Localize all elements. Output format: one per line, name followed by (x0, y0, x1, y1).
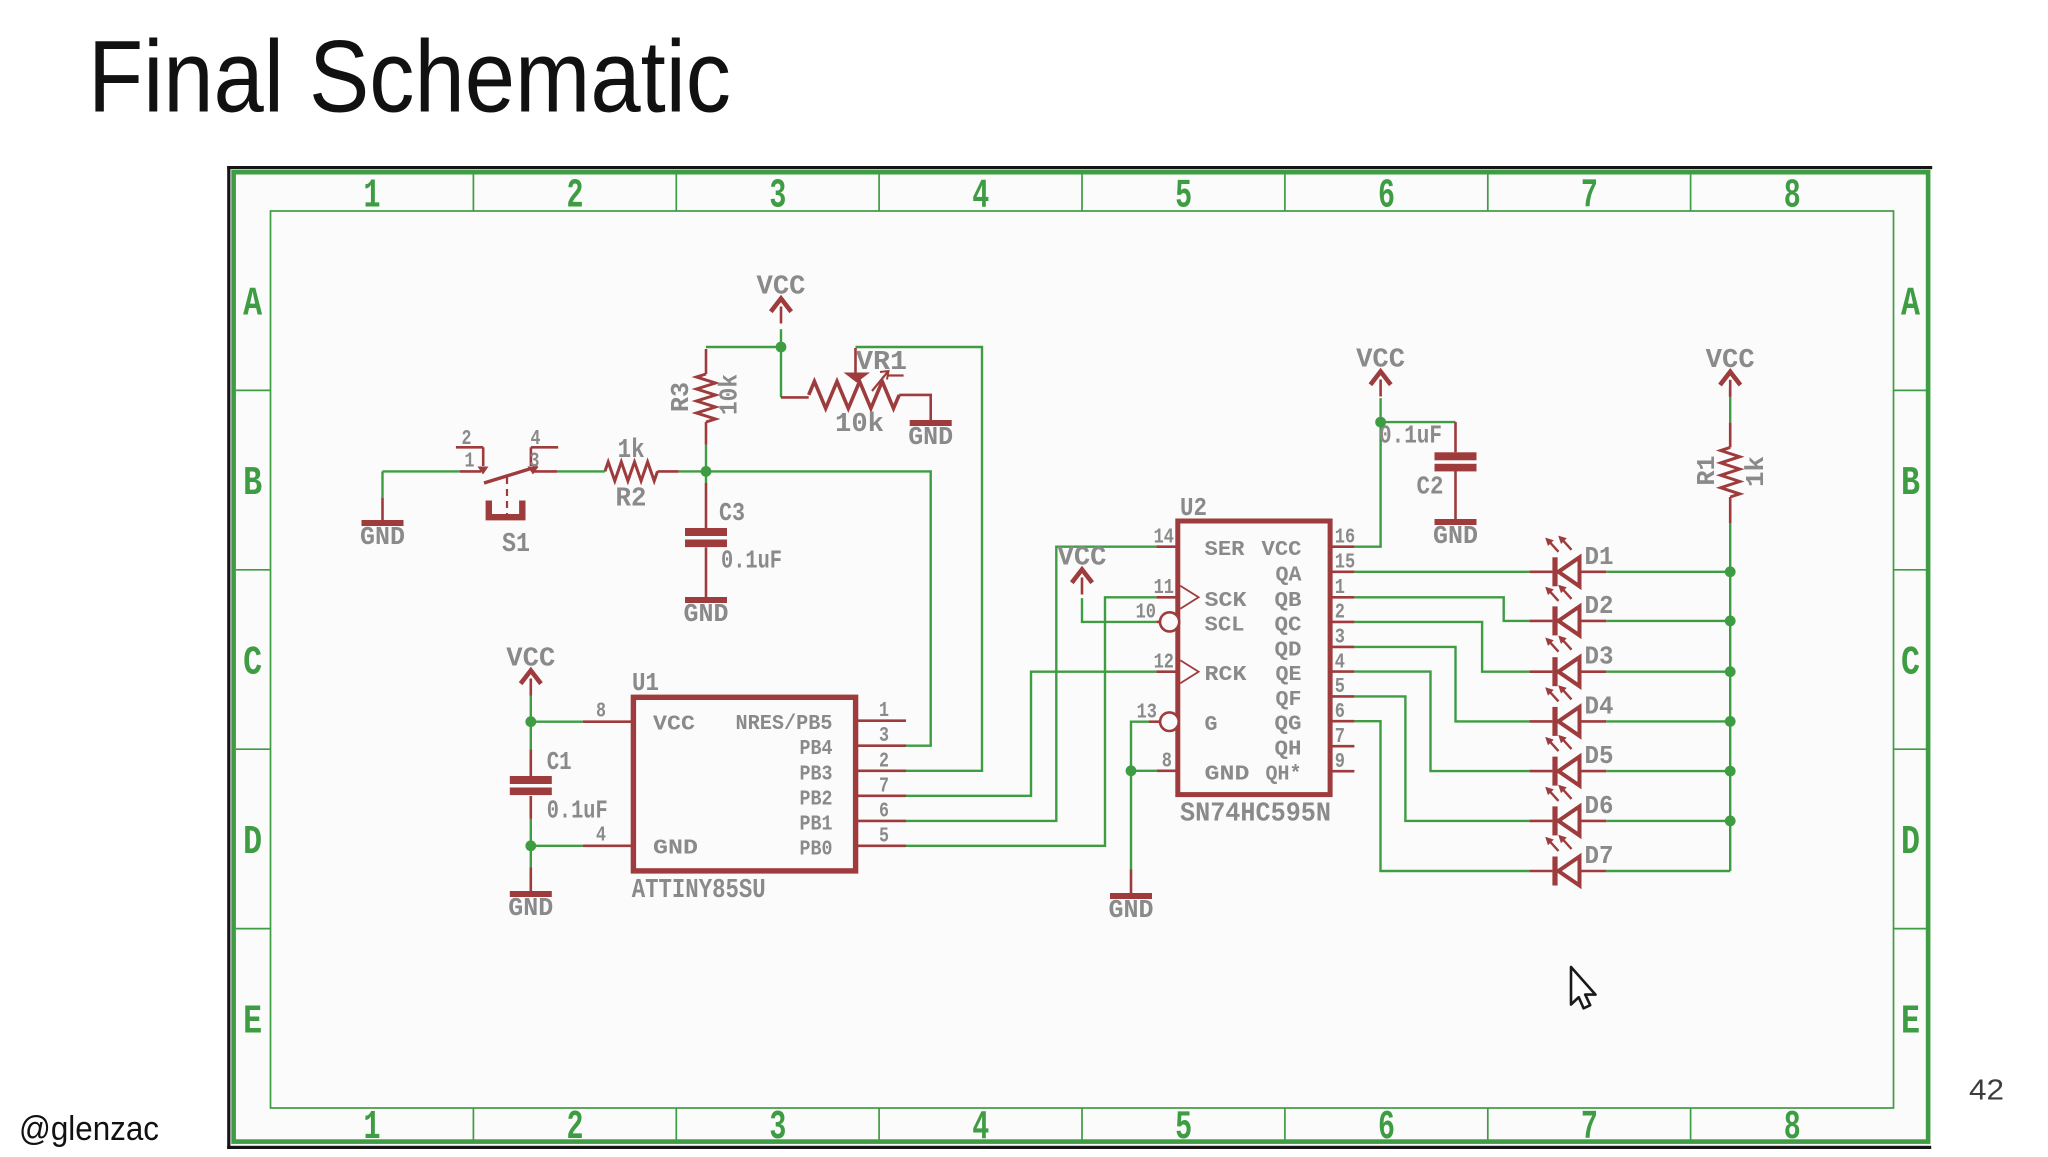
svg-text:0.1uF: 0.1uF (547, 796, 608, 826)
svg-text:GND: GND (1433, 521, 1478, 551)
svg-text:D3: D3 (1585, 642, 1614, 672)
svg-text:C2: C2 (1417, 472, 1444, 502)
svg-text:10: 10 (1136, 602, 1156, 625)
svg-text:1: 1 (465, 451, 475, 474)
svg-text:16: 16 (1335, 527, 1355, 550)
svg-text:VCC: VCC (1058, 544, 1107, 574)
svg-text:D6: D6 (1585, 791, 1614, 821)
svg-text:4: 4 (972, 1105, 989, 1151)
svg-text:15: 15 (1335, 552, 1355, 575)
svg-text:7: 7 (1581, 1105, 1598, 1151)
svg-text:VR1: VR1 (856, 348, 907, 378)
svg-text:5: 5 (1175, 174, 1192, 220)
svg-text:2: 2 (462, 428, 472, 451)
svg-text:1k: 1k (1741, 456, 1771, 487)
svg-text:D: D (1901, 820, 1920, 866)
svg-text:3: 3 (879, 725, 889, 748)
svg-text:6: 6 (1335, 701, 1345, 724)
svg-text:E: E (243, 999, 262, 1045)
svg-text:B: B (243, 461, 262, 507)
svg-text:VCC: VCC (506, 645, 555, 675)
svg-text:RCK: RCK (1205, 664, 1247, 687)
svg-text:D: D (243, 820, 262, 866)
svg-text:D1: D1 (1585, 542, 1614, 572)
svg-text:PB0: PB0 (800, 838, 833, 861)
svg-text:7: 7 (1581, 174, 1598, 220)
svg-text:SCL: SCL (1205, 614, 1245, 637)
svg-text:R1: R1 (1692, 456, 1722, 486)
svg-text:1: 1 (879, 700, 889, 723)
svg-text:2: 2 (567, 1105, 584, 1151)
svg-text:SER: SER (1205, 539, 1245, 562)
svg-text:5: 5 (879, 825, 889, 848)
svg-text:VCC: VCC (757, 273, 806, 303)
svg-text:6: 6 (1378, 174, 1395, 220)
svg-text:QC: QC (1275, 614, 1302, 637)
svg-text:S1: S1 (502, 530, 530, 560)
svg-text:2: 2 (1335, 602, 1345, 625)
svg-text:7: 7 (1335, 726, 1345, 749)
svg-text:5: 5 (1175, 1105, 1192, 1151)
svg-text:ATTINY85SU: ATTINY85SU (632, 876, 766, 906)
svg-text:1: 1 (1335, 577, 1345, 600)
svg-text:U2: U2 (1180, 493, 1207, 523)
svg-text:2: 2 (879, 750, 889, 773)
svg-text:D2: D2 (1585, 591, 1614, 621)
svg-text:13: 13 (1137, 702, 1157, 725)
svg-text:A: A (243, 282, 262, 328)
svg-text:10k: 10k (835, 410, 884, 440)
svg-text:D7: D7 (1585, 841, 1614, 871)
svg-text:C: C (243, 641, 262, 687)
svg-text:QB: QB (1275, 590, 1302, 613)
svg-text:QH: QH (1275, 739, 1302, 762)
svg-text:VCC: VCC (1706, 346, 1755, 376)
svg-text:11: 11 (1154, 577, 1174, 600)
svg-text:QE: QE (1276, 664, 1302, 687)
svg-text:7: 7 (879, 775, 889, 798)
svg-text:@glenzac: @glenzac (19, 1110, 159, 1148)
svg-text:SN74HC595N: SN74HC595N (1180, 800, 1331, 830)
svg-text:12: 12 (1154, 652, 1174, 675)
svg-text:E: E (1901, 999, 1920, 1045)
svg-text:U1: U1 (632, 668, 659, 698)
svg-text:8: 8 (1162, 751, 1172, 774)
svg-text:QG: QG (1275, 714, 1302, 737)
svg-text:42: 42 (1969, 1075, 2004, 1107)
svg-text:PB3: PB3 (800, 763, 833, 786)
svg-text:9: 9 (1335, 751, 1345, 774)
svg-text:PB4: PB4 (800, 738, 833, 761)
svg-text:8: 8 (596, 701, 606, 724)
svg-text:6: 6 (1378, 1105, 1395, 1151)
svg-text:GND: GND (1205, 763, 1250, 786)
svg-text:QH*: QH* (1266, 764, 1302, 787)
svg-text:D4: D4 (1585, 691, 1614, 721)
svg-text:3: 3 (1335, 627, 1345, 650)
svg-text:6: 6 (879, 800, 889, 823)
svg-text:VCC: VCC (1356, 346, 1405, 376)
svg-text:B: B (1901, 461, 1920, 507)
svg-text:4: 4 (972, 174, 989, 220)
svg-text:D5: D5 (1585, 741, 1614, 771)
svg-text:C3: C3 (719, 498, 745, 528)
svg-text:3: 3 (769, 1105, 786, 1151)
svg-text:14: 14 (1154, 527, 1174, 550)
svg-text:5: 5 (1335, 676, 1345, 699)
svg-text:C: C (1901, 641, 1920, 687)
svg-text:R3: R3 (666, 382, 696, 412)
svg-text:VCC: VCC (1262, 539, 1302, 562)
svg-text:8: 8 (1784, 1105, 1801, 1151)
svg-text:3: 3 (530, 451, 540, 474)
svg-text:GND: GND (653, 838, 698, 861)
svg-text:4: 4 (531, 428, 541, 451)
svg-text:QA: QA (1276, 564, 1302, 587)
svg-text:NRES/PB5: NRES/PB5 (736, 713, 833, 736)
svg-text:GND: GND (360, 522, 405, 552)
svg-text:GND: GND (908, 422, 953, 452)
svg-text:1: 1 (364, 1105, 381, 1151)
svg-text:10k: 10k (715, 374, 745, 415)
svg-text:0.1uF: 0.1uF (1379, 421, 1442, 451)
svg-text:0.1uF: 0.1uF (721, 546, 782, 576)
svg-text:8: 8 (1784, 174, 1801, 220)
svg-text:2: 2 (567, 174, 584, 220)
svg-text:Final Schematic: Final Schematic (88, 19, 731, 134)
svg-text:GND: GND (508, 893, 553, 923)
svg-text:4: 4 (1335, 651, 1345, 674)
svg-text:1: 1 (364, 174, 381, 220)
svg-text:QD: QD (1275, 639, 1302, 662)
svg-text:A: A (1901, 282, 1920, 328)
svg-text:3: 3 (769, 174, 786, 220)
svg-text:PB2: PB2 (800, 788, 833, 811)
svg-text:GND: GND (1109, 895, 1154, 925)
svg-text:G: G (1205, 714, 1218, 737)
svg-text:VCC: VCC (653, 714, 695, 737)
svg-text:R2: R2 (616, 485, 647, 515)
svg-text:QF: QF (1276, 689, 1302, 712)
svg-text:SCK: SCK (1205, 590, 1247, 613)
svg-text:PB1: PB1 (800, 813, 833, 836)
svg-text:4: 4 (596, 825, 606, 848)
svg-text:C1: C1 (547, 747, 572, 777)
svg-text:GND: GND (684, 599, 729, 629)
svg-text:1k: 1k (618, 436, 645, 466)
